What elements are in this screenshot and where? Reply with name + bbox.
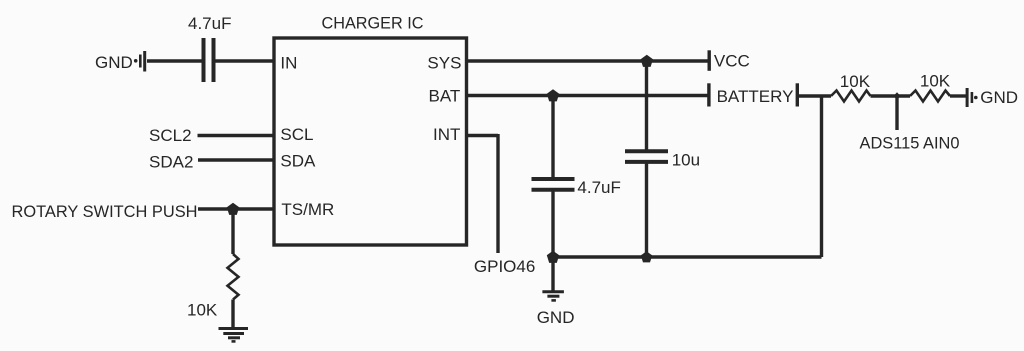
junction node at rail left [547, 251, 559, 263]
svg-text:10K: 10K [840, 72, 871, 91]
ground symbol at rail GND [542, 292, 564, 301]
svg-text:GND: GND [980, 88, 1018, 107]
svg-text:SYS: SYS [427, 53, 461, 72]
svg-text:4.7uF: 4.7uF [188, 14, 231, 33]
wire ground stub at rail [551, 257, 554, 291]
capacitor C2 4.7uF plates [532, 179, 575, 190]
wire R2 to R3 [871, 94, 911, 97]
wire node AIN0 tap down [895, 96, 898, 130]
ground symbol at R1 [219, 329, 249, 342]
svg-text:SDA: SDA [280, 152, 316, 171]
svg-text:CHARGER IC: CHARGER IC [322, 13, 424, 32]
wire C2 to ground rail [551, 192, 554, 258]
wire R1 to ground [231, 300, 234, 328]
svg-text:GND: GND [95, 53, 133, 72]
svg-text:10K: 10K [187, 301, 218, 320]
capacitor C3 10u plates [625, 151, 668, 162]
svg-text:10K: 10K [920, 72, 951, 91]
wire C3 to ground rail [645, 162, 648, 257]
wire BAT pin to BATTERY [467, 94, 708, 97]
svg-text:4.7uF: 4.7uF [577, 178, 620, 197]
wire SYS pin to VCC [467, 59, 708, 62]
wire ROTARY SWITCH PUSH to TS/MR pin [198, 207, 274, 210]
power port GND left [134, 51, 146, 72]
wire node TS/MR down to R1 [231, 209, 234, 254]
resistor R3 10K [910, 91, 950, 102]
wire C1 to IN pin [216, 59, 275, 62]
svg-text:GPIO46: GPIO46 [474, 257, 535, 276]
wire SYS node down to C3 [645, 61, 648, 151]
svg-text:VCC: VCC [714, 52, 750, 71]
wire SCL2 to SCL pin [198, 134, 275, 137]
resistor R2 10K [831, 91, 871, 102]
wire INT pin down to GPIO46 [467, 134, 499, 253]
svg-text:10u: 10u [672, 150, 700, 169]
resistor R1 10K vertical [228, 254, 239, 300]
charger IC box U1 [274, 38, 467, 245]
svg-text:ADS115 AIN0: ADS115 AIN0 [860, 133, 960, 152]
svg-text:BATTERY: BATTERY [717, 87, 794, 106]
wire R3 to GND port [950, 94, 966, 97]
wire SDA2 to SDA pin [198, 158, 274, 161]
svg-text:GND: GND [537, 308, 575, 327]
power port GND right [966, 88, 978, 107]
svg-text:SDA2: SDA2 [149, 152, 193, 171]
wire GND port to C1 [147, 59, 202, 62]
junction node at rail right [641, 251, 652, 262]
power port VCC [708, 50, 711, 71]
svg-text:INT: INT [433, 125, 460, 144]
junction node at TS/MR [227, 203, 239, 215]
svg-text:BAT: BAT [429, 87, 461, 106]
capacitor C1 4.7uF plates [204, 38, 214, 82]
junction node at BAT [547, 89, 559, 101]
svg-text:ROTARY SWITCH PUSH: ROTARY SWITCH PUSH [12, 202, 198, 221]
svg-text:SCL: SCL [280, 125, 313, 144]
wire BAT node down to C2 [551, 96, 554, 178]
svg-text:TS/MR: TS/MR [281, 200, 334, 219]
wire battery sense riser [820, 96, 823, 257]
power port BATTERY bars [707, 83, 799, 106]
svg-text:SCL2: SCL2 [149, 126, 192, 145]
svg-text:IN: IN [280, 53, 297, 72]
wire BATTERY to R2 [796, 94, 831, 97]
wire ground rail [553, 255, 822, 258]
junction node at SYS [641, 55, 653, 67]
junction node AIN0 [894, 92, 901, 100]
